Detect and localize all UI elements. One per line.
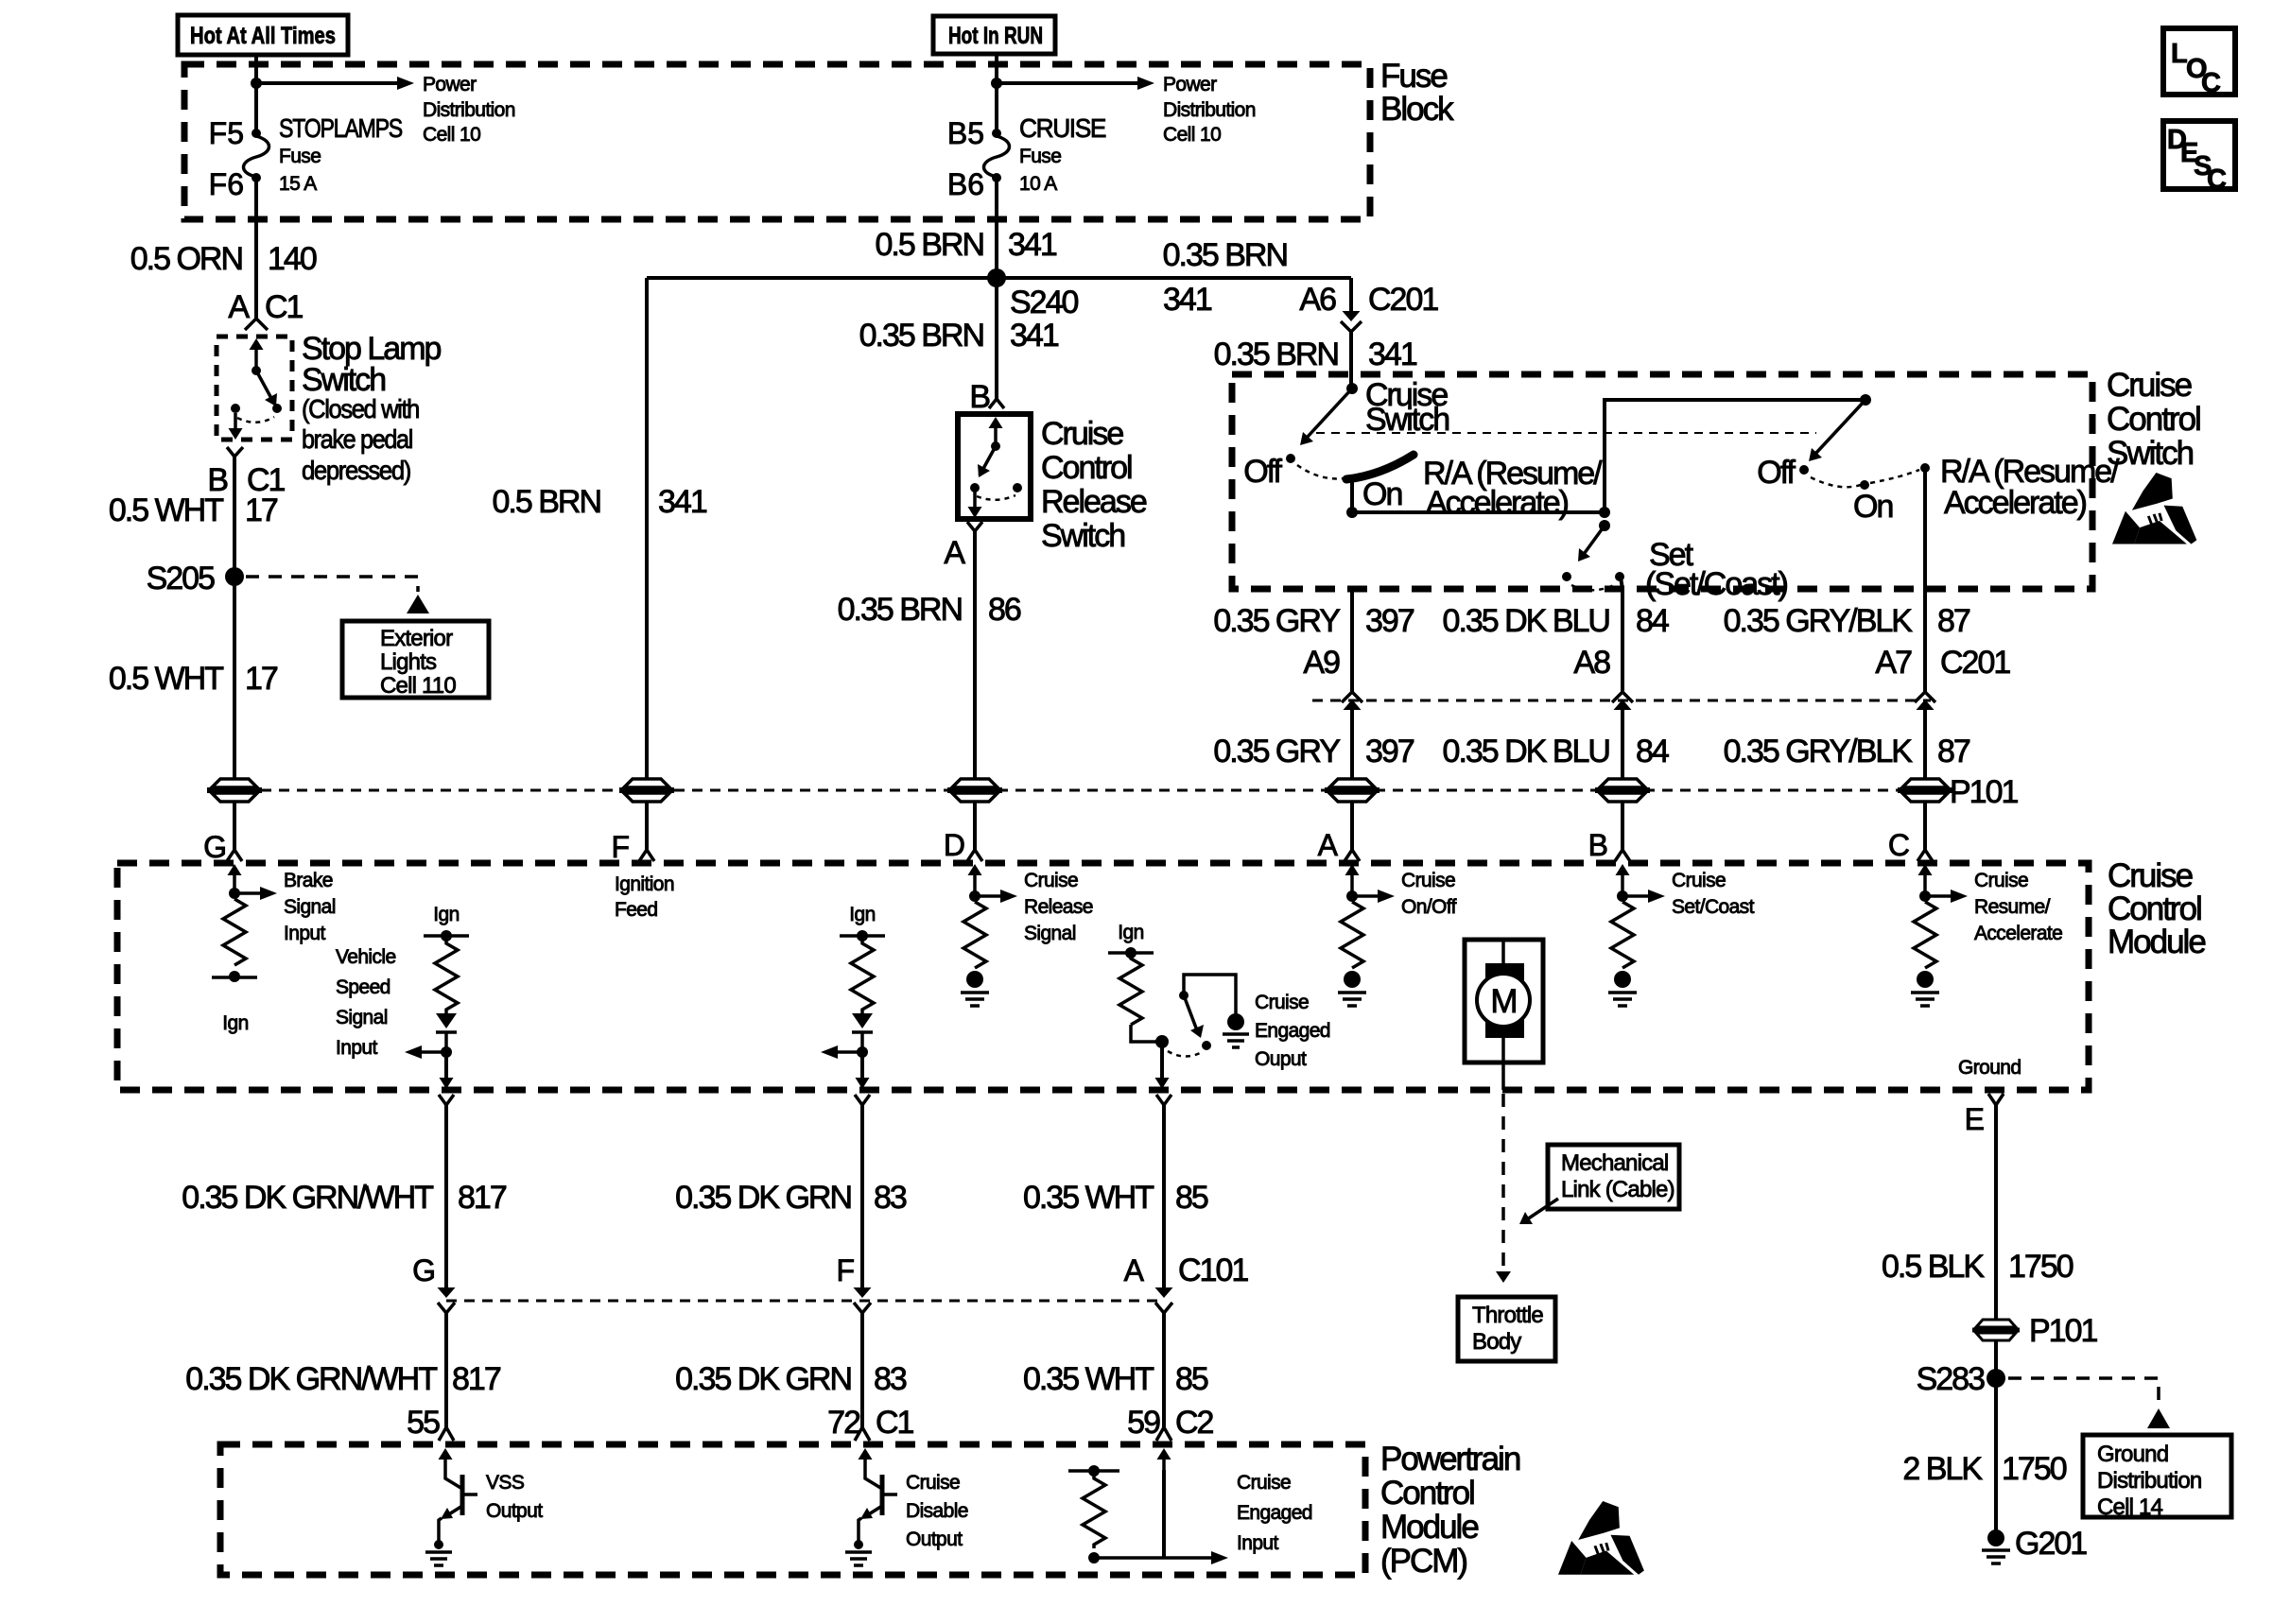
svg-text:83: 83 bbox=[874, 1361, 907, 1397]
svg-text:Cruise: Cruise bbox=[1401, 870, 1455, 891]
svg-text:84: 84 bbox=[1636, 603, 1669, 639]
svg-text:(Set/Coast): (Set/Coast) bbox=[1645, 566, 1788, 602]
svg-text:Ouput: Ouput bbox=[1255, 1048, 1307, 1070]
svg-text:Input: Input bbox=[336, 1037, 377, 1059]
svg-text:Ignition: Ignition bbox=[615, 873, 674, 895]
svg-text:Link (Cable): Link (Cable) bbox=[1561, 1177, 1674, 1202]
svg-text:0.35 DK GRN: 0.35 DK GRN bbox=[675, 1180, 851, 1216]
svg-text:59: 59 bbox=[1127, 1405, 1160, 1441]
svg-text:0.5 ORN: 0.5 ORN bbox=[130, 241, 242, 277]
svg-text:C201: C201 bbox=[1940, 645, 2010, 681]
svg-text:83: 83 bbox=[874, 1180, 907, 1216]
svg-text:Cruise: Cruise bbox=[1255, 992, 1309, 1013]
svg-text:S240: S240 bbox=[1010, 285, 1078, 320]
svg-text:Fuse: Fuse bbox=[279, 146, 321, 167]
svg-text:0.35 BRN: 0.35 BRN bbox=[859, 318, 983, 354]
svg-text:(Closed with: (Closed with bbox=[302, 394, 419, 423]
svg-text:Power: Power bbox=[423, 74, 477, 95]
svg-text:F: F bbox=[836, 1253, 855, 1287]
svg-text:A: A bbox=[1318, 828, 1339, 862]
svg-text:P101: P101 bbox=[1950, 774, 2018, 810]
svg-text:Disable: Disable bbox=[906, 1500, 968, 1522]
svg-text:0.5 WHT: 0.5 WHT bbox=[109, 661, 223, 697]
svg-text:D: D bbox=[944, 828, 965, 862]
svg-text:0.35 GRY: 0.35 GRY bbox=[1213, 603, 1340, 639]
svg-text:Hot In RUN: Hot In RUN bbox=[948, 23, 1043, 49]
svg-text:Exterior: Exterior bbox=[380, 626, 453, 651]
svg-text:Control: Control bbox=[1041, 450, 1132, 486]
svg-text:397: 397 bbox=[1365, 603, 1414, 639]
svg-text:Switch: Switch bbox=[1041, 518, 1124, 554]
svg-text:1750: 1750 bbox=[2002, 1451, 2067, 1487]
svg-text:Ign: Ign bbox=[222, 1012, 248, 1034]
svg-text:0.35 DK GRN/WHT: 0.35 DK GRN/WHT bbox=[185, 1361, 437, 1397]
svg-text:0.35 DK BLU: 0.35 DK BLU bbox=[1443, 734, 1609, 769]
svg-text:Fuse: Fuse bbox=[1380, 58, 1447, 95]
svg-text:85: 85 bbox=[1175, 1361, 1208, 1397]
svg-text:C1: C1 bbox=[265, 289, 304, 325]
svg-text:A7: A7 bbox=[1875, 645, 1912, 681]
svg-text:0.35 WHT: 0.35 WHT bbox=[1023, 1361, 1154, 1397]
svg-text:0.5 BRN: 0.5 BRN bbox=[876, 227, 984, 263]
svg-text:Output: Output bbox=[906, 1529, 963, 1550]
svg-text:B5: B5 bbox=[947, 116, 984, 150]
svg-text:Control: Control bbox=[1380, 1475, 1474, 1512]
svg-text:(PCM): (PCM) bbox=[1380, 1543, 1466, 1580]
svg-text:Power: Power bbox=[1163, 74, 1217, 95]
svg-text:Powertrain: Powertrain bbox=[1380, 1441, 1520, 1477]
svg-text:P101: P101 bbox=[2029, 1313, 2097, 1349]
svg-text:Cruise: Cruise bbox=[2108, 857, 2193, 894]
svg-text:817: 817 bbox=[458, 1180, 507, 1216]
svg-text:Distribution: Distribution bbox=[423, 99, 515, 121]
svg-text:Brake: Brake bbox=[284, 870, 333, 891]
svg-text:Off: Off bbox=[1757, 455, 1796, 491]
svg-text:87: 87 bbox=[1937, 603, 1970, 639]
svg-text:Module: Module bbox=[1380, 1509, 1478, 1546]
svg-text:Ground: Ground bbox=[2097, 1442, 2168, 1467]
svg-text:Resume/: Resume/ bbox=[1974, 896, 2051, 918]
svg-text:140: 140 bbox=[268, 241, 317, 277]
svg-text:Accelerate): Accelerate) bbox=[1426, 485, 1569, 521]
svg-text:Cruise: Cruise bbox=[1237, 1472, 1291, 1494]
svg-text:Signal: Signal bbox=[284, 896, 336, 918]
svg-text:Switch: Switch bbox=[302, 362, 385, 398]
svg-text:Module: Module bbox=[2108, 924, 2205, 960]
svg-text:Cruise: Cruise bbox=[1672, 870, 1726, 891]
svg-text:A9: A9 bbox=[1303, 645, 1340, 681]
svg-text:On: On bbox=[1362, 476, 1401, 512]
svg-text:A: A bbox=[944, 535, 965, 571]
svg-text:On: On bbox=[1853, 489, 1892, 525]
svg-text:Cruise: Cruise bbox=[1974, 870, 2028, 891]
svg-text:M: M bbox=[1490, 983, 1516, 1020]
svg-text:Off: Off bbox=[1243, 454, 1282, 490]
svg-text:depressed): depressed) bbox=[302, 456, 410, 485]
svg-text:10 A: 10 A bbox=[1019, 173, 1057, 195]
svg-text:87: 87 bbox=[1937, 734, 1970, 769]
svg-text:Signal: Signal bbox=[336, 1007, 388, 1028]
svg-text:Feed: Feed bbox=[615, 899, 657, 921]
svg-text:84: 84 bbox=[1636, 734, 1669, 769]
svg-text:0.35 BRN: 0.35 BRN bbox=[838, 592, 962, 628]
svg-text:341: 341 bbox=[658, 484, 707, 520]
svg-text:0.35 GRY/BLK: 0.35 GRY/BLK bbox=[1724, 603, 1914, 639]
svg-text:B: B bbox=[969, 379, 989, 415]
svg-text:C: C bbox=[2207, 164, 2227, 195]
svg-text:A: A bbox=[1124, 1253, 1145, 1287]
svg-text:Ign: Ign bbox=[849, 904, 875, 925]
svg-text:F5: F5 bbox=[209, 116, 244, 150]
svg-text:0.35 DK GRN/WHT: 0.35 DK GRN/WHT bbox=[182, 1180, 433, 1216]
svg-text:Switch: Switch bbox=[2107, 435, 2194, 472]
svg-text:Ign: Ign bbox=[1118, 922, 1143, 943]
svg-text:Cruise: Cruise bbox=[906, 1472, 960, 1494]
svg-text:0.5 WHT: 0.5 WHT bbox=[109, 492, 223, 528]
svg-text:G: G bbox=[203, 830, 227, 864]
svg-text:817: 817 bbox=[452, 1361, 501, 1397]
svg-text:Input: Input bbox=[1237, 1532, 1278, 1554]
svg-text:Mechanical: Mechanical bbox=[1561, 1150, 1668, 1176]
svg-text:Engaged: Engaged bbox=[1237, 1502, 1312, 1524]
svg-text:Cell 14: Cell 14 bbox=[2097, 1494, 2163, 1520]
svg-text:B: B bbox=[1588, 828, 1608, 862]
svg-text:VSS: VSS bbox=[486, 1472, 525, 1494]
svg-text:Throttle: Throttle bbox=[1472, 1303, 1543, 1328]
svg-text:C201: C201 bbox=[1368, 282, 1438, 318]
svg-text:Control: Control bbox=[2108, 890, 2201, 927]
svg-text:0.35 DK BLU: 0.35 DK BLU bbox=[1443, 603, 1609, 639]
svg-text:S205: S205 bbox=[147, 561, 215, 596]
svg-text:85: 85 bbox=[1175, 1180, 1208, 1216]
svg-text:Cell 10: Cell 10 bbox=[1163, 124, 1221, 146]
svg-text:0.35 WHT: 0.35 WHT bbox=[1023, 1180, 1154, 1216]
svg-text:0.35 GRY/BLK: 0.35 GRY/BLK bbox=[1724, 734, 1914, 769]
svg-text:Distribution: Distribution bbox=[2097, 1468, 2201, 1494]
svg-text:341: 341 bbox=[1163, 282, 1212, 318]
svg-text:341: 341 bbox=[1010, 318, 1059, 354]
svg-text:A8: A8 bbox=[1573, 645, 1610, 681]
svg-text:C101: C101 bbox=[1178, 1253, 1248, 1288]
svg-text:72: 72 bbox=[827, 1405, 860, 1441]
svg-text:Lights: Lights bbox=[380, 649, 437, 675]
svg-text:0.5 BRN: 0.5 BRN bbox=[493, 484, 601, 520]
svg-text:C: C bbox=[1888, 828, 1910, 862]
svg-text:G201: G201 bbox=[2015, 1526, 2087, 1562]
svg-text:Control: Control bbox=[2107, 401, 2200, 438]
svg-text:2 BLK: 2 BLK bbox=[1902, 1451, 1983, 1487]
svg-text:397: 397 bbox=[1365, 734, 1414, 769]
svg-text:Cruise: Cruise bbox=[1041, 416, 1123, 452]
svg-text:CRUISE: CRUISE bbox=[1019, 113, 1106, 143]
svg-text:0.35 DK GRN: 0.35 DK GRN bbox=[675, 1361, 851, 1397]
svg-text:F: F bbox=[611, 830, 630, 864]
svg-text:Accelerate: Accelerate bbox=[1974, 923, 2062, 944]
svg-text:17: 17 bbox=[245, 492, 278, 528]
svg-text:Hot At All Times: Hot At All Times bbox=[190, 23, 336, 49]
svg-text:Ign: Ign bbox=[433, 904, 459, 925]
svg-text:brake pedal: brake pedal bbox=[302, 424, 412, 454]
svg-text:C: C bbox=[2201, 68, 2221, 98]
svg-text:Cell 10: Cell 10 bbox=[423, 124, 480, 146]
svg-text:Accelerate): Accelerate) bbox=[1944, 485, 2087, 521]
svg-text:55: 55 bbox=[407, 1405, 440, 1441]
svg-text:G: G bbox=[412, 1253, 436, 1287]
svg-text:Cruise: Cruise bbox=[2107, 367, 2192, 404]
svg-text:C1: C1 bbox=[876, 1405, 914, 1441]
svg-text:A: A bbox=[228, 289, 250, 325]
svg-text:0.35 BRN: 0.35 BRN bbox=[1163, 237, 1287, 273]
svg-text:Speed: Speed bbox=[336, 976, 390, 998]
svg-text:Distribution: Distribution bbox=[1163, 99, 1256, 121]
svg-text:Vehicle: Vehicle bbox=[336, 946, 396, 968]
svg-text:A6: A6 bbox=[1299, 282, 1336, 318]
svg-text:341: 341 bbox=[1008, 227, 1057, 263]
svg-text:Fuse: Fuse bbox=[1019, 146, 1061, 167]
svg-text:Output: Output bbox=[486, 1500, 543, 1522]
svg-text:Ground: Ground bbox=[1958, 1057, 2021, 1079]
svg-text:Set/Coast: Set/Coast bbox=[1672, 896, 1755, 918]
svg-text:Release: Release bbox=[1041, 484, 1147, 520]
svg-text:Cell 110: Cell 110 bbox=[380, 673, 456, 699]
svg-text:Switch: Switch bbox=[1365, 402, 1449, 438]
svg-text:E: E bbox=[1965, 1102, 1985, 1136]
svg-text:On/Off: On/Off bbox=[1401, 896, 1457, 918]
svg-text:Block: Block bbox=[1380, 91, 1454, 128]
svg-text:0.5 BLK: 0.5 BLK bbox=[1882, 1249, 1985, 1285]
svg-text:17: 17 bbox=[245, 661, 278, 697]
svg-text:15 A: 15 A bbox=[279, 173, 317, 195]
svg-text:Cruise: Cruise bbox=[1024, 870, 1078, 891]
svg-text:0.35 BRN: 0.35 BRN bbox=[1214, 337, 1338, 372]
svg-text:86: 86 bbox=[988, 592, 1021, 628]
svg-text:S283: S283 bbox=[1917, 1361, 1985, 1397]
svg-text:0.35 GRY: 0.35 GRY bbox=[1213, 734, 1340, 769]
svg-text:341: 341 bbox=[1368, 337, 1417, 372]
svg-text:STOPLAMPS: STOPLAMPS bbox=[279, 113, 403, 143]
svg-text:Body: Body bbox=[1472, 1329, 1521, 1355]
svg-text:C2: C2 bbox=[1175, 1405, 1214, 1441]
svg-text:F6: F6 bbox=[209, 167, 244, 201]
svg-text:Engaged: Engaged bbox=[1255, 1020, 1330, 1042]
svg-text:Release: Release bbox=[1024, 896, 1093, 918]
svg-text:Signal: Signal bbox=[1024, 923, 1076, 944]
svg-text:Input: Input bbox=[284, 923, 325, 944]
svg-text:1750: 1750 bbox=[2008, 1249, 2073, 1285]
svg-text:B6: B6 bbox=[947, 167, 984, 201]
